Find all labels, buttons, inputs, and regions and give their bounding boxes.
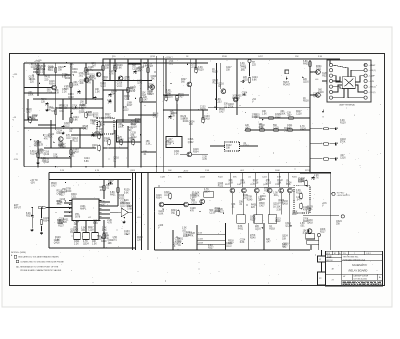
label 1.5K xyxy=(41,158,46,163)
label .001 xyxy=(240,180,246,185)
wire xyxy=(122,90,124,122)
svg-text:47K: 47K xyxy=(87,82,92,84)
svg-text:R240: R240 xyxy=(247,199,253,201)
wire xyxy=(147,59,149,90)
label R304 xyxy=(103,236,109,241)
label C224 xyxy=(135,119,141,124)
label Q418 xyxy=(340,139,346,144)
wire +V rail xyxy=(103,58,340,60)
connector pin R5 xyxy=(364,85,367,88)
svg-text:6.8K: 6.8K xyxy=(277,177,282,179)
label R304 xyxy=(190,64,196,69)
svg-text:R217: R217 xyxy=(320,232,326,234)
label 15K xyxy=(62,189,67,194)
wire IC output xyxy=(99,217,110,219)
wire xyxy=(332,76,342,82)
wire IC input xyxy=(64,211,72,213)
svg-text:3.3K: 3.3K xyxy=(59,111,64,113)
label R431 xyxy=(251,204,257,209)
svg-text:.001: .001 xyxy=(169,64,174,66)
wire xyxy=(236,59,238,115)
label C311 xyxy=(40,69,46,74)
wire xyxy=(289,193,291,250)
wire xyxy=(163,109,208,111)
svg-text:.047: .047 xyxy=(91,66,96,68)
svg-text:Q122: Q122 xyxy=(226,246,232,248)
svg-text:C311: C311 xyxy=(72,72,78,74)
capacitor 270K xyxy=(46,102,49,106)
transistor Q510 xyxy=(159,202,164,207)
label R304 xyxy=(57,220,63,225)
svg-text:R217: R217 xyxy=(250,219,256,221)
label R518 xyxy=(51,183,57,188)
resistor R431 xyxy=(165,94,167,101)
resistor R518 xyxy=(102,64,104,71)
label C417 xyxy=(105,65,111,70)
input connector J1 xyxy=(39,206,48,209)
label R518 xyxy=(228,240,234,245)
label C316 xyxy=(117,83,123,88)
transistor Q163 xyxy=(150,85,155,90)
junction xyxy=(66,62,67,63)
resistor 5.6K xyxy=(70,148,72,155)
label 2.2K xyxy=(137,81,142,86)
junction xyxy=(302,77,303,78)
wire xyxy=(141,101,156,103)
label C224 xyxy=(242,92,248,97)
label Q113 xyxy=(70,229,76,234)
svg-text:C219: C219 xyxy=(47,92,53,94)
svg-text:10K: 10K xyxy=(108,243,113,245)
junction xyxy=(65,200,66,201)
svg-text:+ ON (2): + ON (2) xyxy=(369,86,377,88)
label R217 xyxy=(105,114,111,119)
junction xyxy=(55,62,56,63)
label C224 xyxy=(93,220,99,225)
junction xyxy=(102,166,103,167)
label R129 xyxy=(51,108,57,113)
label R518 xyxy=(26,109,32,114)
svg-text:33K: 33K xyxy=(226,148,231,150)
connector P101 outline xyxy=(327,60,371,102)
wire IC pin stub xyxy=(70,215,73,217)
wire xyxy=(71,134,103,136)
svg-text:R217: R217 xyxy=(35,145,41,147)
wire IC pin stub xyxy=(99,203,102,205)
wire xyxy=(332,65,348,77)
label 8.2K xyxy=(322,73,328,78)
wire xyxy=(188,204,202,206)
wire xyxy=(41,208,43,219)
resistor .01 xyxy=(70,116,72,123)
svg-text:C417: C417 xyxy=(219,112,225,114)
label 10K xyxy=(228,180,233,185)
label Q324 xyxy=(189,121,195,126)
wire xyxy=(27,99,29,120)
junction xyxy=(73,74,74,75)
label 2.2K xyxy=(35,151,40,156)
wire xyxy=(86,69,103,71)
svg-text:C417: C417 xyxy=(83,129,89,131)
label C128 xyxy=(303,207,309,212)
svg-text:6.8K: 6.8K xyxy=(242,95,247,97)
junction xyxy=(115,71,116,72)
wire xyxy=(103,147,128,149)
label R431 xyxy=(30,79,36,84)
label C133 xyxy=(54,240,60,245)
scan noise speckles xyxy=(13,56,382,283)
junction xyxy=(163,208,164,209)
connector pin L5 xyxy=(329,85,332,88)
svg-text:1K: 1K xyxy=(92,148,95,150)
resistor C316 xyxy=(258,129,265,131)
svg-text:R217: R217 xyxy=(58,145,64,147)
label 560 xyxy=(101,238,107,243)
svg-text:6.8K: 6.8K xyxy=(84,161,89,163)
label 100K xyxy=(35,143,41,148)
junction xyxy=(140,134,141,135)
junction box xyxy=(318,272,326,285)
svg-text:R217: R217 xyxy=(292,214,298,216)
svg-text:- LAMP: - LAMP xyxy=(369,74,376,77)
junction xyxy=(69,204,70,205)
connector pin L2 xyxy=(329,69,332,72)
wire xyxy=(202,110,204,120)
capacitor 1.5K xyxy=(134,70,137,74)
svg-text:R431: R431 xyxy=(238,229,244,231)
label 15K xyxy=(276,207,281,212)
label C311 xyxy=(174,151,180,156)
svg-text:12K: 12K xyxy=(41,102,46,104)
label C311 xyxy=(287,125,293,130)
label 270K xyxy=(183,119,189,124)
terminal TP1 xyxy=(248,59,251,62)
label under rail xyxy=(280,111,286,116)
label 3.3K xyxy=(198,67,204,72)
svg-text:4.7K: 4.7K xyxy=(95,170,100,172)
label .001 xyxy=(73,82,79,87)
label .01 xyxy=(243,143,249,148)
transistor Q640 xyxy=(279,188,284,193)
svg-text:1K: 1K xyxy=(29,79,32,81)
wire xyxy=(33,98,103,100)
label 2.2K xyxy=(38,149,43,154)
resistor R217 xyxy=(85,66,87,73)
wire xyxy=(197,234,226,236)
label 33K xyxy=(178,242,183,247)
transistor Q133 xyxy=(96,72,101,77)
svg-text:R122: R122 xyxy=(131,124,137,126)
wire drop xyxy=(241,173,243,188)
svg-text:47K: 47K xyxy=(190,210,195,212)
svg-text:10K: 10K xyxy=(74,224,79,226)
label Q216 xyxy=(60,199,66,204)
label C316 xyxy=(59,218,65,223)
label Q122 xyxy=(104,138,110,143)
label 8.2K xyxy=(282,244,288,249)
label Q324 xyxy=(108,240,114,245)
wire xyxy=(85,221,87,233)
svg-text:Q324: Q324 xyxy=(300,129,306,131)
svg-text:5.6K: 5.6K xyxy=(127,208,132,210)
label 560 xyxy=(37,142,43,147)
label R518 xyxy=(31,65,37,70)
svg-text:1K: 1K xyxy=(283,246,286,248)
label Q324 xyxy=(336,221,342,226)
wire xyxy=(48,173,50,249)
svg-text:10K: 10K xyxy=(282,238,287,240)
resistor 15K xyxy=(195,66,197,73)
junction xyxy=(72,113,73,114)
svg-text:33K: 33K xyxy=(131,140,136,142)
title block rule xyxy=(326,257,342,259)
resistor Q113 xyxy=(287,117,294,119)
svg-text:2.2K: 2.2K xyxy=(62,92,67,94)
label Q216 xyxy=(273,204,279,209)
junction xyxy=(69,208,70,209)
label 8.2K xyxy=(124,200,130,205)
label Q122 xyxy=(147,91,153,96)
svg-text:INDICATES DC VOLTAGE READIN: INDICATES DC VOLTAGE READING TAKEN xyxy=(18,256,59,259)
junction xyxy=(37,166,38,167)
svg-text:POINT: POINT xyxy=(283,85,291,87)
label Q113 xyxy=(218,183,224,188)
label 1.5K xyxy=(273,192,278,197)
label 3.3K xyxy=(340,120,346,125)
label C219 xyxy=(298,179,304,184)
junction xyxy=(32,207,33,208)
svg-text:1K: 1K xyxy=(218,86,221,88)
label C133 xyxy=(307,220,313,225)
svg-text:.001: .001 xyxy=(300,226,305,228)
label Q324 xyxy=(58,67,64,72)
wire upper rail xyxy=(24,62,208,64)
junction xyxy=(69,200,70,201)
svg-text:100K: 100K xyxy=(28,95,34,97)
wire IC output xyxy=(99,205,110,207)
svg-text:R327: R327 xyxy=(57,204,63,206)
module box xyxy=(83,233,89,240)
svg-text:R304: R304 xyxy=(49,84,55,86)
svg-text:15K: 15K xyxy=(105,68,110,70)
wire xyxy=(127,59,129,100)
capacitor 4.7K xyxy=(109,93,112,97)
label 10K xyxy=(95,89,100,94)
svg-text:3.3K: 3.3K xyxy=(146,143,151,145)
junction xyxy=(109,182,110,183)
svg-text:100K: 100K xyxy=(118,127,124,129)
svg-text:R217: R217 xyxy=(103,236,109,238)
svg-text:918: 918 xyxy=(327,255,332,259)
label C133 xyxy=(73,149,79,154)
label +8.6 xyxy=(322,203,327,208)
label .001 xyxy=(73,227,79,232)
module box xyxy=(74,233,80,240)
svg-text:2.2K: 2.2K xyxy=(60,170,65,172)
label Q113 xyxy=(213,80,219,85)
label 4.7K xyxy=(99,122,105,127)
svg-text:C417: C417 xyxy=(259,205,265,207)
svg-text:R304: R304 xyxy=(156,198,162,200)
wire xyxy=(321,250,323,256)
svg-text:C417: C417 xyxy=(51,186,57,188)
label C133 xyxy=(282,201,288,206)
wire xyxy=(114,130,116,167)
label Q113 xyxy=(72,138,78,143)
label C133 xyxy=(124,231,130,236)
wire xyxy=(103,89,128,91)
svg-text:Q113: Q113 xyxy=(118,140,124,142)
svg-text:.047: .047 xyxy=(296,200,301,202)
svg-text:.047: .047 xyxy=(101,204,106,206)
svg-text:5.6K: 5.6K xyxy=(307,209,312,211)
junction xyxy=(156,58,157,59)
label R304 xyxy=(71,194,77,199)
label C133 xyxy=(204,116,210,121)
svg-text:Q324: Q324 xyxy=(204,192,210,194)
wire xyxy=(321,262,323,272)
label 220 xyxy=(303,79,309,84)
svg-text:Q122: Q122 xyxy=(64,126,70,128)
label 8.2K xyxy=(36,66,42,71)
wire lower rail -V xyxy=(24,166,310,168)
junction xyxy=(53,142,54,143)
label C316 xyxy=(164,192,170,197)
label R518 xyxy=(178,94,184,99)
label .001 xyxy=(118,124,124,129)
junction xyxy=(108,183,109,184)
junction xyxy=(70,62,71,63)
connector pin L7 xyxy=(329,96,332,99)
label C224 xyxy=(159,211,165,216)
junction xyxy=(262,227,263,228)
label R431 xyxy=(236,96,242,101)
wire xyxy=(114,59,116,112)
svg-text:SER NO: SER NO xyxy=(326,260,333,262)
wire xyxy=(190,87,192,152)
label TP xyxy=(252,62,257,67)
resistor R431 xyxy=(85,111,87,118)
svg-text:100K: 100K xyxy=(280,114,286,116)
wire xyxy=(351,70,364,76)
wire xyxy=(220,63,222,89)
label C133 xyxy=(68,94,74,99)
label 15K xyxy=(80,102,85,107)
label 12K xyxy=(287,112,292,117)
label R240 xyxy=(41,99,47,104)
connector pin L6 xyxy=(329,90,332,93)
svg-text:C417: C417 xyxy=(192,196,198,198)
label 12K xyxy=(258,197,263,202)
svg-text:4.7K: 4.7K xyxy=(38,152,43,154)
capacitor .047 xyxy=(62,125,65,129)
svg-text:3.3K: 3.3K xyxy=(306,211,311,213)
junction xyxy=(85,166,86,167)
wire xyxy=(110,211,118,213)
label 47K xyxy=(266,180,272,185)
svg-text:6.8K: 6.8K xyxy=(240,242,245,244)
resistor C417 xyxy=(322,128,329,130)
label +15 TO xyxy=(30,180,38,185)
wire xyxy=(49,247,136,249)
svg-text:.047: .047 xyxy=(266,242,271,244)
wire IC pin stub xyxy=(99,211,102,213)
label .01 xyxy=(286,180,292,185)
svg-text:10K: 10K xyxy=(336,224,341,226)
label 15K xyxy=(146,141,151,146)
svg-text:Q122: Q122 xyxy=(275,117,281,119)
label C224 xyxy=(73,117,79,122)
svg-text:.001: .001 xyxy=(81,230,86,232)
wire drop xyxy=(267,173,269,188)
relay K202 xyxy=(254,215,263,224)
wire xyxy=(164,204,184,206)
svg-text:Q216: Q216 xyxy=(255,229,261,231)
label Q113 xyxy=(48,67,54,72)
label R122 xyxy=(131,137,137,142)
svg-text:R122: R122 xyxy=(275,221,281,223)
arrow xyxy=(322,110,324,114)
wire xyxy=(348,88,364,97)
wire xyxy=(330,158,334,160)
svg-text:.047: .047 xyxy=(170,114,175,116)
ground xyxy=(123,220,126,223)
label 12K xyxy=(59,105,64,110)
wire xyxy=(331,193,333,195)
label 8.2K xyxy=(148,91,154,96)
svg-text:12K: 12K xyxy=(137,240,142,242)
wire right bus xyxy=(309,60,311,173)
title block rule xyxy=(326,273,342,275)
transistor Q143 xyxy=(59,137,64,142)
svg-text:C417: C417 xyxy=(37,69,43,71)
svg-text:R240: R240 xyxy=(148,87,154,89)
svg-text:Q418: Q418 xyxy=(282,203,288,205)
svg-text:C219: C219 xyxy=(273,128,279,130)
label 560 xyxy=(273,125,279,130)
resistor R240 xyxy=(140,96,142,103)
transistor Q530 xyxy=(200,199,205,204)
svg-text:C417: C417 xyxy=(153,116,159,118)
svg-text:AMPL: AMPL xyxy=(80,208,87,211)
label R217 xyxy=(131,124,137,129)
transistor Q710 xyxy=(307,229,312,234)
wire IC pin stub xyxy=(99,207,102,209)
wire xyxy=(70,140,72,167)
connector pin L3 xyxy=(329,74,332,77)
label 1.5K xyxy=(59,144,64,149)
svg-text:5.6K: 5.6K xyxy=(124,192,129,194)
svg-text:Q324: Q324 xyxy=(99,125,105,127)
resistor C224 xyxy=(117,186,119,193)
label 33K xyxy=(69,128,74,133)
svg-text:C311: C311 xyxy=(102,80,108,82)
wire xyxy=(259,117,310,119)
label 560 xyxy=(129,88,135,93)
svg-text:10K: 10K xyxy=(151,79,156,81)
label 155- xyxy=(75,214,81,219)
wire xyxy=(355,85,364,92)
label R129 xyxy=(34,69,40,74)
junction xyxy=(101,236,102,237)
label 3.3K xyxy=(30,151,36,156)
title block rule xyxy=(342,254,383,256)
wire xyxy=(163,94,189,96)
capacitor C431 xyxy=(241,80,245,83)
svg-text:4.7K: 4.7K xyxy=(64,89,69,91)
label 33K xyxy=(239,201,244,206)
label 270K xyxy=(250,235,256,240)
